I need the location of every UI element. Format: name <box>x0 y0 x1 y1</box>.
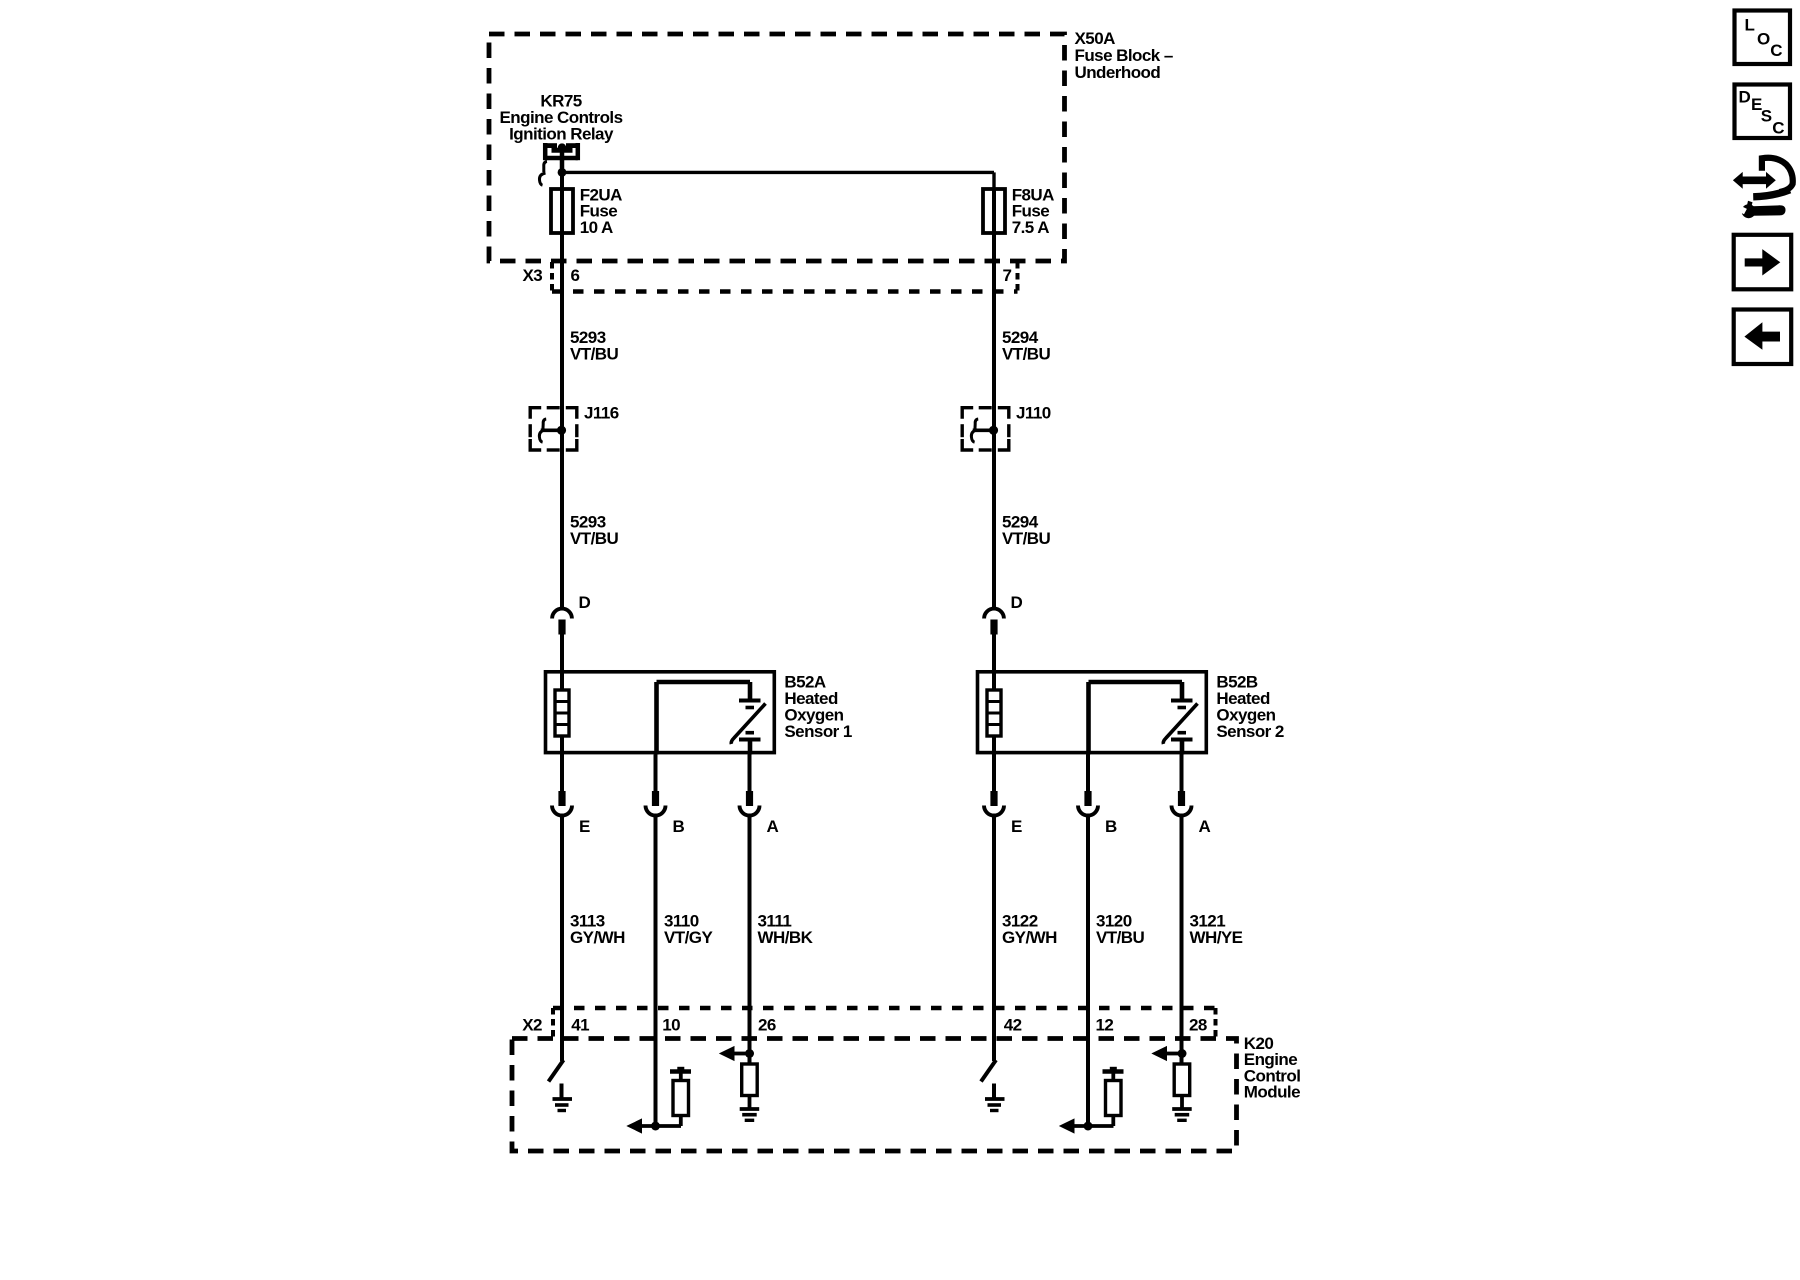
svg-text:WH/BK: WH/BK <box>758 928 814 947</box>
svg-text:GY/WH: GY/WH <box>570 928 625 947</box>
connector D terminal (right) <box>984 609 1004 635</box>
svg-text:J116: J116 <box>584 404 619 423</box>
pin 10 label <box>662 1016 680 1035</box>
svg-text:L: L <box>1745 16 1755 35</box>
svg-text:X2: X2 <box>522 1016 542 1035</box>
label J116 <box>584 404 619 423</box>
pin 42 label <box>1004 1016 1022 1035</box>
label B52A Heated Oxygen Sensor 1 <box>784 673 852 742</box>
svg-text:C: C <box>1770 41 1782 60</box>
internal supply rail (pin 10) <box>670 1067 691 1081</box>
terminal E (left) <box>552 755 572 816</box>
junction dot (pin 10) <box>651 1122 660 1131</box>
label B (right) <box>1105 817 1117 836</box>
label A (left) <box>767 817 779 836</box>
svg-text:VT/BU: VT/BU <box>570 529 619 548</box>
wire 3120 (B to pin 12) <box>1086 814 1090 1126</box>
pin 26 label <box>758 1016 776 1035</box>
splice hook marks below relay <box>539 162 547 186</box>
svg-text:12: 12 <box>1096 1016 1114 1035</box>
wire 3122 (E to pin 42) <box>992 814 996 1061</box>
wire label 3121 WH/YE <box>1190 912 1243 948</box>
wire label 5294 VT/BU (lower) <box>1002 513 1051 549</box>
label E (right) <box>1011 817 1022 836</box>
oxygen sensor B52B <box>978 670 1207 755</box>
wire label 3111 WH/BK <box>758 912 814 948</box>
pin 28 label <box>1189 1016 1207 1035</box>
ECM internal switch contact (pin 41) <box>549 1060 564 1082</box>
label B (left) <box>673 817 685 836</box>
label K20 Engine Control Module <box>1244 1034 1301 1102</box>
wire D to B52B <box>992 634 996 670</box>
internal supply rail (pin 12) <box>1103 1067 1124 1081</box>
icon service/diagnostic symbol <box>1733 158 1793 218</box>
label B52B Heated Oxygen Sensor 2 <box>1216 673 1284 742</box>
label A (right) <box>1199 817 1211 836</box>
pin 6 label <box>571 266 580 285</box>
svg-text:7.5 A: 7.5 A <box>1012 218 1050 237</box>
wire label 5293 VT/BU (upper) <box>570 328 619 364</box>
junction node (relay output) <box>558 168 567 177</box>
svg-text:7: 7 <box>1003 266 1012 285</box>
connector X3 band (dotted) <box>552 262 1018 292</box>
ECM internal switch contact (pin 42) <box>981 1060 996 1082</box>
wire 5293 (fuse F2UA to sensor B52A) <box>560 172 564 607</box>
svg-text:VT/GY: VT/GY <box>664 928 713 947</box>
icon forward arrow box <box>1734 235 1792 289</box>
svg-text:Ignition Relay: Ignition Relay <box>509 125 614 144</box>
label D (left) <box>579 593 591 612</box>
svg-text:10 A: 10 A <box>580 218 613 237</box>
pin 41 label <box>571 1016 589 1035</box>
svg-text:10: 10 <box>662 1016 680 1035</box>
wire 5294 (fuse F8UA to sensor B52B) <box>992 190 996 607</box>
splice J110 <box>962 408 1009 450</box>
wire label 3113 GY/WH <box>570 912 625 948</box>
fuse F8UA label <box>1012 185 1054 237</box>
wire label 3120 VT/BU <box>1096 912 1145 948</box>
junction dot (pin 26) <box>745 1049 754 1058</box>
ECM internal resistor (pin 26) <box>742 1064 758 1096</box>
wire bus from relay to F8UA <box>562 172 994 190</box>
wire label 3110 VT/GY <box>664 912 713 948</box>
wire label 5293 VT/BU (lower) <box>570 513 619 549</box>
ECM internal resistor (pin 28) <box>1174 1064 1190 1096</box>
svg-text:VT/BU: VT/BU <box>1002 345 1051 364</box>
ground symbol (pin 26) <box>740 1096 760 1121</box>
svg-text:6: 6 <box>571 266 580 285</box>
svg-text:Underhood: Underhood <box>1075 63 1161 82</box>
label X50A Fuse Block - Underhood <box>1075 29 1173 82</box>
svg-text:Sensor 2: Sensor 2 <box>1216 722 1284 741</box>
svg-text:C: C <box>1772 118 1784 137</box>
fuse F2UA label <box>580 185 622 237</box>
ground symbol (pin 41) <box>553 1084 573 1111</box>
ECM internal resistor (pin 12) <box>1106 1081 1122 1127</box>
ground symbol (pin 28) <box>1172 1096 1192 1121</box>
oxygen sensor B52A <box>546 670 775 755</box>
svg-text:WH/YE: WH/YE <box>1190 928 1243 947</box>
wire label 3122 GY/WH <box>1002 912 1057 948</box>
junction dot (pin 12) <box>1084 1122 1093 1131</box>
signal arrow to other circuit (pin 12) <box>1060 1119 1114 1133</box>
label E (left) <box>579 817 590 836</box>
ground symbol (pin 42) <box>985 1084 1005 1111</box>
svg-text:X3: X3 <box>523 266 543 285</box>
wire D to B52A <box>560 634 564 670</box>
label D (right) <box>1011 593 1023 612</box>
ECM internal resistor (pin 10) <box>673 1081 689 1127</box>
wire 3113 (E to pin 41) <box>560 814 564 1061</box>
svg-text:42: 42 <box>1004 1016 1022 1035</box>
label X3 <box>523 266 543 285</box>
terminal B (left) <box>646 755 666 816</box>
ECM K20 outline (dashed box) <box>512 1039 1237 1152</box>
wire label 5294 VT/BU (upper) <box>1002 328 1051 364</box>
wire 3111 (A to pin 26) <box>748 814 752 1064</box>
svg-text:VT/BU: VT/BU <box>570 345 619 364</box>
svg-text:A: A <box>1199 817 1211 836</box>
wire 3110 (B to pin 10) <box>654 814 658 1126</box>
svg-text:J110: J110 <box>1016 404 1051 423</box>
terminal A (left) <box>740 755 760 816</box>
splice J116 <box>530 408 577 450</box>
label J110 <box>1016 404 1051 423</box>
terminal E (right) <box>984 755 1004 816</box>
connector X2 band (dotted) <box>553 1008 1216 1037</box>
signal arrow to other circuit (pin 10) <box>628 1119 682 1133</box>
svg-text:O: O <box>1757 29 1770 48</box>
svg-text:S: S <box>1761 106 1772 125</box>
svg-text:E: E <box>579 817 590 836</box>
svg-text:VT/BU: VT/BU <box>1002 529 1051 548</box>
connector D terminal (left) <box>552 609 572 635</box>
svg-text:A: A <box>767 817 779 836</box>
signal arrow to other circuit (pin 26) <box>720 1047 750 1061</box>
label X2 <box>522 1016 542 1035</box>
fuse F8UA body <box>983 189 1005 233</box>
svg-text:B: B <box>1105 817 1117 836</box>
fuse block X50A outline (dashed box) <box>489 34 1065 261</box>
svg-text:26: 26 <box>758 1016 776 1035</box>
svg-text:E: E <box>1011 817 1022 836</box>
junction dot (pin 28) <box>1178 1049 1187 1058</box>
wire 3121 (A to pin 28) <box>1180 814 1184 1064</box>
fuse F2UA body <box>551 189 573 233</box>
terminal B (right) <box>1078 755 1098 816</box>
svg-text:GY/WH: GY/WH <box>1002 928 1057 947</box>
pin 7 label <box>1003 266 1012 285</box>
relay KR75 contact symbol <box>543 143 580 172</box>
svg-text:28: 28 <box>1189 1016 1207 1035</box>
svg-text:D: D <box>1011 593 1023 612</box>
svg-text:D: D <box>579 593 591 612</box>
svg-text:41: 41 <box>571 1016 589 1035</box>
svg-text:D: D <box>1739 87 1751 106</box>
icon LOC box <box>1735 11 1791 65</box>
icon DESC box <box>1735 85 1791 139</box>
terminal A (right) <box>1172 755 1192 816</box>
pin 12 label <box>1096 1016 1114 1035</box>
svg-text:B: B <box>673 817 685 836</box>
relay KR75 label <box>499 92 622 144</box>
signal arrow to other circuit (pin 28) <box>1153 1047 1183 1061</box>
svg-text:VT/BU: VT/BU <box>1096 928 1145 947</box>
svg-text:Module: Module <box>1244 1083 1300 1102</box>
icon back arrow box <box>1734 310 1792 365</box>
svg-text:Sensor 1: Sensor 1 <box>784 722 852 741</box>
